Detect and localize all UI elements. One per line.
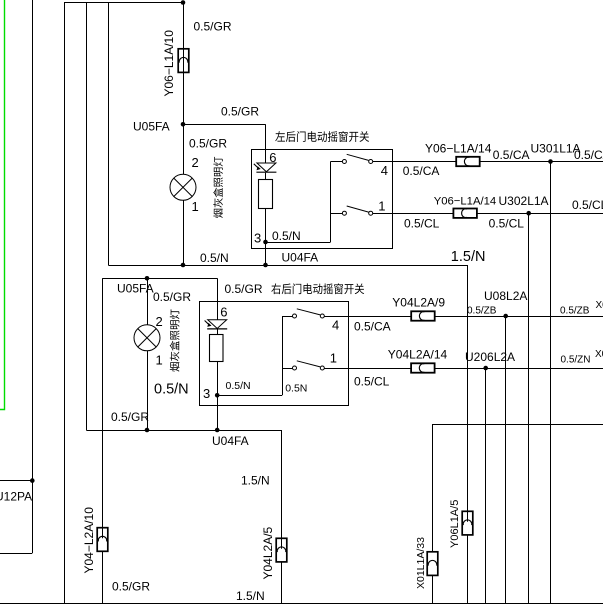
wire U302L1A down (528, 213, 530, 604)
connector Y06-L1A/14 pin4 (456, 157, 480, 166)
wire pin3 down upper (265, 242, 267, 265)
wire U05FA into box lower (217, 278, 219, 319)
wire vertical trunk 1 (64, 3, 66, 604)
lamp ashtray illumination lower (134, 325, 160, 351)
wire U04FA lower down (281, 430, 283, 604)
switch S4 lower stub (282, 316, 292, 318)
wire pin1 lower (324, 368, 411, 370)
svg-text:X01L1A: X01L1A (596, 300, 603, 311)
svg-text:3: 3 (254, 231, 261, 246)
switch S4 upper stub (331, 161, 343, 163)
wire vertical trunk far-left (32, 0, 34, 553)
node U05FA lower (145, 276, 150, 281)
switch S4 lower right contact (320, 314, 324, 318)
wire R1 to pin3 (265, 173, 267, 180)
wire pin4 lower (324, 316, 411, 318)
switch box U2 label (271, 283, 280, 294)
node pin3 bottom upper (263, 263, 268, 268)
wire U04FA upper (108, 265, 467, 267)
svg-text:0.5/N: 0.5/N (154, 382, 189, 398)
svg-text:Y04L2A/14: Y04L2A/14 (388, 348, 448, 362)
svg-text:0.5/GR: 0.5/GR (111, 410, 149, 424)
wire X01L1A down (432, 425, 434, 604)
switch S1 lower left contact (293, 366, 297, 370)
wire pin4 to U301L1A (480, 161, 550, 163)
svg-text:0.5/N: 0.5/N (226, 380, 251, 392)
connector Y06-L1A/14 pin1 (453, 209, 477, 218)
switch box U1 label (275, 131, 285, 141)
wire bottom-right horizontal (432, 424, 603, 426)
svg-text:1.5/N: 1.5/N (451, 249, 486, 265)
svg-text:U04FA: U04FA (212, 434, 249, 448)
wire pin3 down lower (217, 395, 219, 430)
switch S4 lower blade (297, 309, 320, 315)
wire U12PA stub lower (0, 553, 32, 555)
wire U05FA lower top (102, 278, 217, 280)
svg-text:Y06−L1A/14: Y06−L1A/14 (425, 142, 492, 156)
svg-text:0.5/GR: 0.5/GR (112, 579, 150, 593)
wire R2 to pin3 (217, 330, 219, 335)
svg-text:0.5/GR: 0.5/GR (189, 137, 227, 151)
svg-text:0.5/GR: 0.5/GR (194, 20, 232, 34)
node pin3 lower (215, 393, 220, 398)
svg-text:0.5/N: 0.5/N (200, 251, 229, 265)
switch S4 lower left contact (293, 314, 297, 318)
lamp ashtray illumination upper (170, 174, 196, 200)
switch S4 upper right contact (369, 160, 373, 164)
node U301L1A (548, 159, 553, 164)
wire pin4 to U08L2A (435, 316, 506, 318)
wire switch bus upper (330, 162, 332, 243)
switch S4 upper left contact (342, 160, 346, 164)
svg-text:0.5/CL: 0.5/CL (354, 374, 390, 388)
connector Y04L2A/5 (276, 538, 287, 562)
wire U08L2A down (505, 316, 507, 604)
resistor R2 lower (210, 335, 224, 362)
svg-text:0.5/CA: 0.5/CA (493, 148, 530, 162)
wire pin1 to U206L2A (435, 368, 486, 370)
node lamp2 bottom (145, 428, 150, 433)
wire pin1 to U302L1A (477, 213, 528, 215)
wire bottom rail (0, 603, 603, 605)
connector Y04L2A/5 label (261, 526, 275, 579)
wire green highlight (0, 0, 5, 410)
svg-text:U206L2A: U206L2A (465, 350, 515, 364)
switch S1 lower stub (282, 368, 292, 370)
connector Y06L1A/5 (462, 511, 473, 535)
svg-text:2: 2 (156, 314, 163, 329)
svg-text:0.5/ZB: 0.5/ZB (467, 306, 497, 317)
wire Y06-L1A/10 lower (183, 72, 185, 124)
LED D1 upper (254, 163, 277, 172)
lamp ashtray lower wire (147, 278, 149, 430)
wire U12PA stub upper (0, 480, 32, 482)
node top junction (181, 0, 186, 5)
svg-text:0.5/GR: 0.5/GR (221, 104, 259, 118)
wire pin4 upper (373, 161, 456, 163)
svg-text:1: 1 (192, 199, 199, 214)
svg-text:4: 4 (332, 317, 339, 332)
switch S1 lower blade (297, 361, 320, 367)
switch S1 upper blade (347, 206, 369, 212)
wire pin3 to bus upper (266, 242, 331, 244)
resistor R1 upper (259, 180, 273, 209)
svg-text:0.5/GR: 0.5/GR (153, 290, 191, 304)
svg-text:0.5/CL: 0.5/CL (489, 217, 525, 231)
svg-text:Y06L1A/5: Y06L1A/5 (449, 500, 461, 548)
svg-text:U05FA: U05FA (133, 119, 170, 133)
connector Y04L2A/14 (411, 363, 435, 372)
wire left edge lower (102, 278, 104, 604)
switch S1 lower right contact (320, 366, 324, 370)
svg-text:Y04L2A/9: Y04L2A/9 (392, 295, 445, 309)
svg-text:U12PA: U12PA (0, 490, 32, 504)
svg-text:6: 6 (220, 304, 227, 319)
switch S4 upper blade (347, 154, 369, 160)
switch S1 upper right contact (369, 211, 373, 215)
wire switch bus lower (282, 316, 284, 395)
connector Y04L2A/9 (411, 311, 435, 320)
wire U302L1A to edge (529, 213, 603, 215)
svg-text:0.5/CA: 0.5/CA (403, 164, 440, 178)
svg-text:1: 1 (330, 350, 337, 365)
lamp ashtray upper label (213, 209, 222, 218)
connector Y04-L2A/10 (97, 528, 108, 552)
switch S1 upper left contact (342, 211, 346, 215)
svg-text:Y04L2A/5: Y04L2A/5 (261, 526, 275, 579)
wire U206L2A down (485, 368, 487, 604)
switch S1 upper stub (331, 213, 343, 215)
svg-text:X01L1A: X01L1A (595, 349, 603, 360)
svg-text:X01L1A/33: X01L1A/33 (415, 537, 427, 589)
connector Y04-L2A/10 label (82, 507, 96, 574)
svg-text:1: 1 (378, 198, 385, 213)
svg-text:0.5/ZN: 0.5/ZN (561, 354, 591, 365)
lamp ashtray upper wire (183, 124, 185, 265)
wire U04FA lower (86, 430, 281, 432)
svg-text:3: 3 (203, 386, 210, 401)
node U302L1A (526, 211, 531, 216)
wire U206L2A to edge (486, 368, 603, 370)
svg-text:1.5/N: 1.5/N (236, 589, 265, 603)
node lamp1 bottom (181, 263, 186, 268)
wire U04FA down right (467, 265, 469, 604)
node U206L2A (483, 366, 488, 371)
svg-text:U05FA: U05FA (117, 282, 154, 296)
node pin3 bottom lower (215, 428, 220, 433)
connector Y06L1A/5 label (449, 500, 461, 548)
svg-text:0.5/CL: 0.5/CL (404, 217, 440, 231)
svg-text:U08L2A: U08L2A (484, 289, 527, 303)
connector X01L1A/33 label (415, 537, 427, 589)
wire U08L2A to edge (506, 316, 603, 318)
svg-text:0.5/CL: 0.5/CL (572, 198, 603, 212)
node U08L2A (503, 314, 508, 319)
svg-text:0.5/CA: 0.5/CA (574, 148, 603, 162)
svg-text:1: 1 (156, 353, 163, 368)
svg-text:U04FA: U04FA (282, 250, 319, 264)
node pin3 upper (263, 240, 268, 245)
svg-text:4: 4 (381, 163, 388, 178)
lamp ashtray lower label (170, 362, 180, 371)
LED D2 lower (205, 320, 228, 329)
svg-text:2: 2 (192, 155, 199, 170)
connector Y06-L1A/10 (178, 49, 189, 73)
svg-text:0.5/ZB: 0.5/ZB (560, 306, 590, 317)
wire vertical trunk 3 (108, 3, 110, 266)
switch box U1 left-rear-door (252, 150, 393, 249)
svg-text:Y04−L2A/10: Y04−L2A/10 (82, 507, 96, 574)
svg-text:U302L1A: U302L1A (499, 194, 549, 208)
svg-text:0.5/CA: 0.5/CA (354, 320, 391, 334)
wire U301L1A to edge (551, 161, 603, 163)
connector X01L1A/33 (427, 552, 438, 576)
connector Y06-L1A/10 label (162, 30, 176, 97)
svg-text:Y06−L1A/14: Y06−L1A/14 (434, 195, 497, 207)
wire top bus (64, 2, 183, 4)
wire pin1 upper (373, 213, 454, 215)
wire vertical trunk 2 (86, 3, 88, 431)
node U12PA (30, 478, 35, 483)
wire U301L1A down (550, 162, 552, 604)
svg-text:0.5N: 0.5N (285, 382, 307, 394)
wire U05FA to switch (183, 124, 266, 126)
switch box U2 right-rear-door (200, 302, 349, 406)
svg-text:1.5/N: 1.5/N (241, 473, 270, 487)
node U05FA upper (181, 122, 186, 127)
svg-text:0.5/N: 0.5/N (272, 229, 301, 243)
svg-text:Y06−L1A/10: Y06−L1A/10 (162, 30, 176, 97)
svg-text:0.5/GR: 0.5/GR (225, 282, 263, 296)
wire pin3 to bus lower (217, 395, 282, 397)
wire Y06-L1A/10 upper (183, 3, 185, 49)
